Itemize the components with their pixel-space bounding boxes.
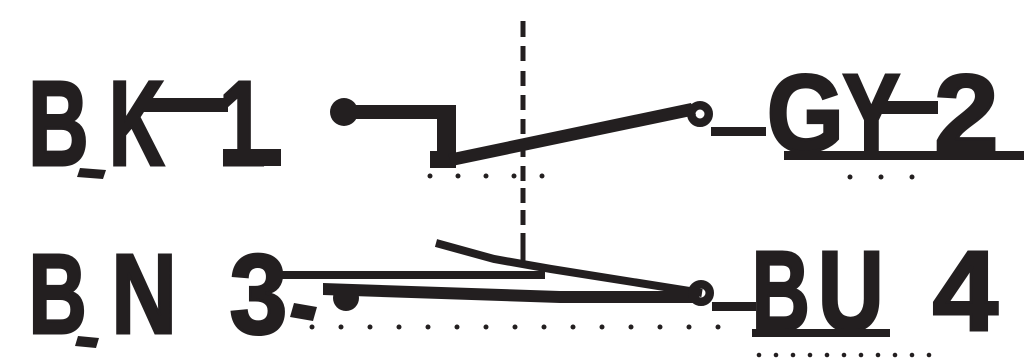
svg-text:3: 3 bbox=[230, 231, 288, 357]
svg-text:4: 4 bbox=[933, 229, 998, 355]
svg-text:N: N bbox=[111, 230, 176, 357]
svg-text:K: K bbox=[109, 56, 164, 191]
svg-text:1: 1 bbox=[219, 57, 266, 192]
